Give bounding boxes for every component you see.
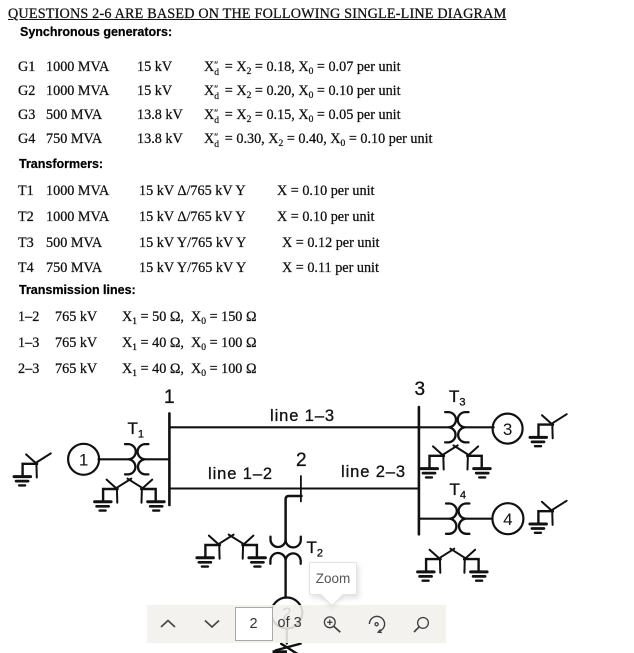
wire T1 to bus 1: [144, 458, 170, 460]
label T2: [307, 538, 324, 558]
title: [8, 6, 506, 23]
wire generator 1 to T1: [99, 458, 130, 460]
node 2 label: [296, 450, 307, 472]
label line 2-3: [341, 463, 406, 482]
grounded wye pair below generator 2 (clipped at page bottom): [273, 644, 301, 653]
wire bus 2 jog down to T2: [286, 496, 302, 542]
svg-text:1: 1: [79, 451, 88, 470]
wire generator 2 down to grounding pair (ghosted under toolbar): [286, 629, 288, 644]
heading transmission lines: [19, 283, 136, 297]
rotate icon: [365, 612, 389, 636]
wire bus 3 to T4: [419, 518, 451, 520]
label line 1-3: [270, 407, 335, 426]
transformer T4: [446, 504, 457, 534]
ground wye of generator 3: [530, 414, 567, 446]
ground wye of generator 4: [530, 501, 567, 533]
generator 4: [492, 503, 523, 534]
grounded wye pair under T1: [95, 479, 132, 511]
chevron down icon: [204, 619, 220, 629]
svg-text:3: 3: [503, 420, 512, 439]
page number box: [235, 607, 273, 641]
label T3: [449, 387, 466, 407]
zoom tooltip: [309, 562, 357, 595]
viewer toolbar: [147, 605, 446, 643]
wire T4 to generator 4: [465, 518, 492, 520]
generator 2: [271, 598, 302, 629]
ground wye of generator 1: [14, 453, 51, 485]
wire line 1-2 / 2-3: [169, 487, 419, 489]
bus 2: [300, 476, 302, 502]
label T1: [128, 419, 145, 439]
wire T2 to generator 2: [284, 559, 286, 598]
wire T3 to generator 3: [464, 426, 494, 428]
node 1 label: [164, 387, 175, 409]
bus 1: [168, 413, 171, 505]
tooltip tail: [320, 583, 343, 606]
grounded wye pair under T4: [418, 549, 455, 581]
generator table: [18, 59, 35, 76]
label T4: [450, 480, 467, 500]
heading transformers: [19, 157, 103, 171]
wire line 1-3: [169, 426, 419, 428]
generator 1: [68, 444, 99, 475]
chevron up icon: [160, 619, 176, 629]
grounded wye pair under T3: [421, 445, 458, 477]
node 3 label: [415, 379, 426, 401]
transformer T2: [271, 537, 301, 548]
heading synchronous generators: [20, 25, 172, 39]
of 3 text: [278, 615, 302, 631]
grounded wye pair left of T2: [197, 535, 234, 567]
search icon: [411, 611, 435, 635]
zoom in icon: [318, 612, 342, 636]
bus 3: [418, 407, 421, 534]
svg-text:4: 4: [503, 510, 512, 529]
transformer T3: [445, 412, 456, 442]
label line 1-2: [208, 465, 273, 484]
wire bus 3 to T3: [419, 426, 450, 428]
transformer T1: [125, 444, 136, 474]
generator 3: [493, 414, 523, 444]
